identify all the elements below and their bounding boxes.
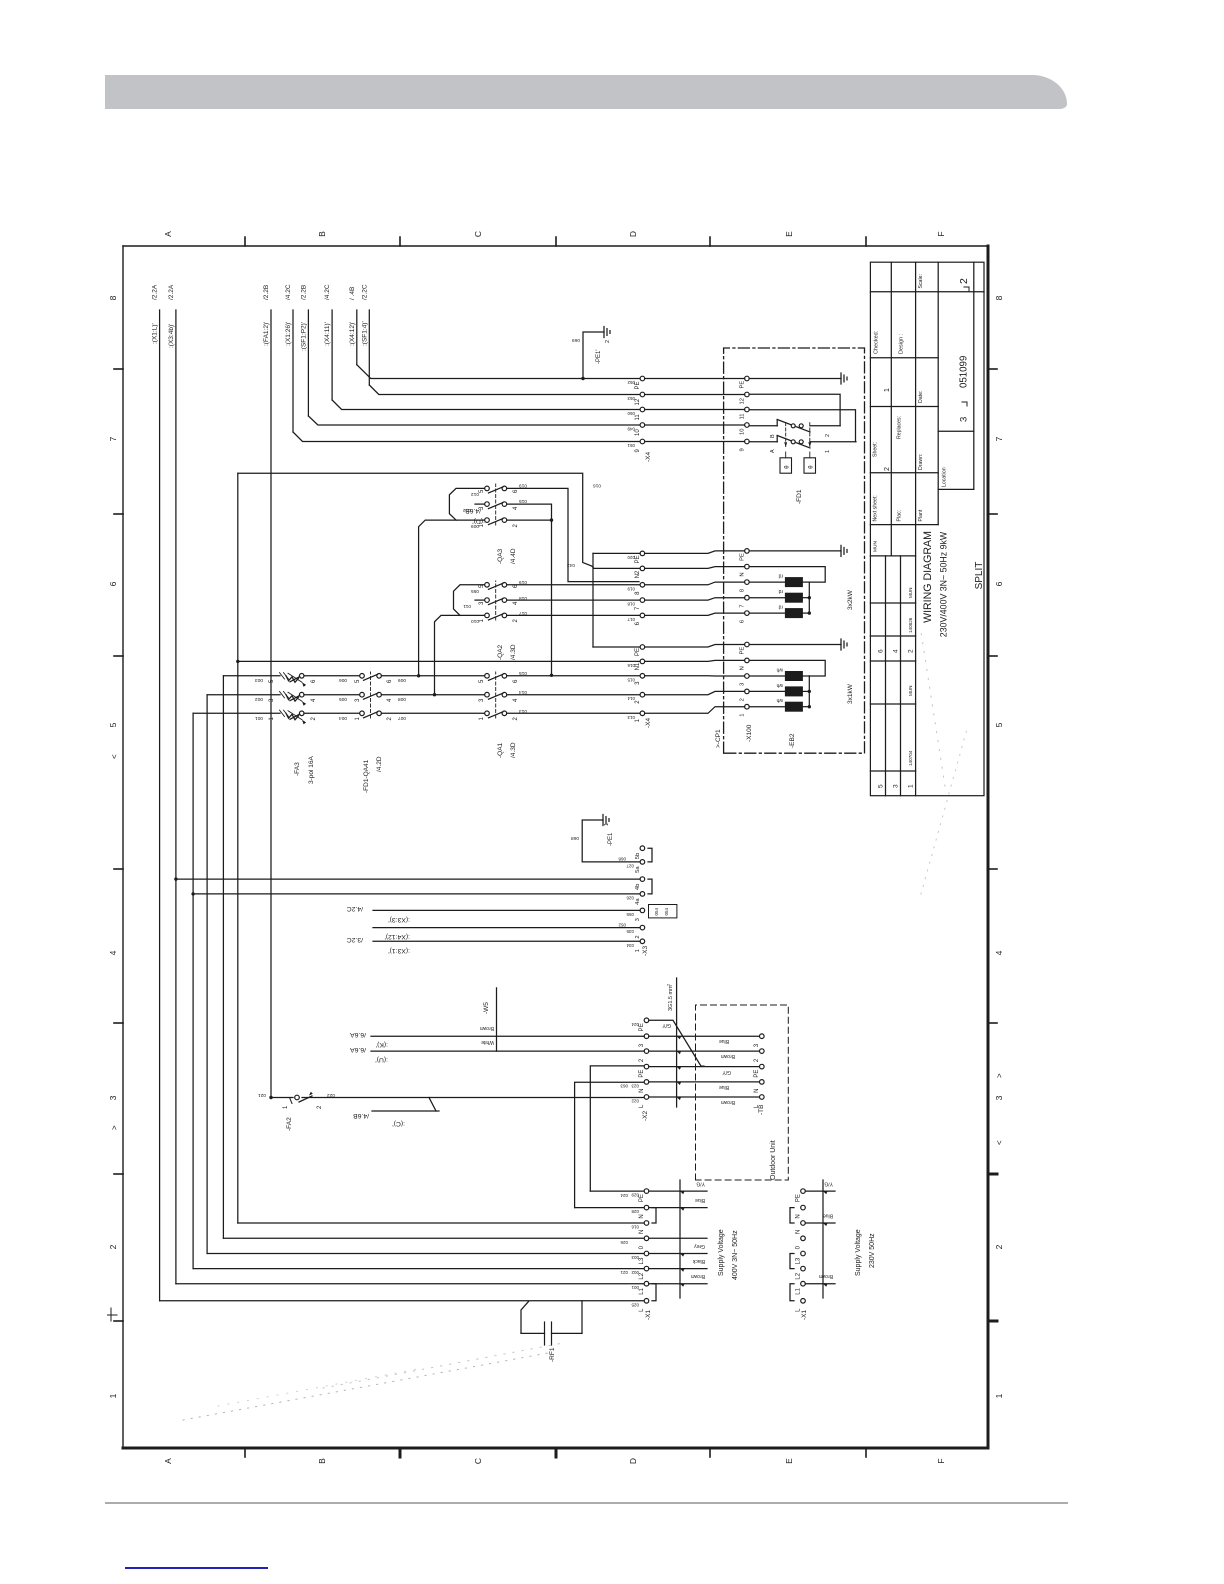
svg-text:1: 1 — [108, 1393, 118, 1398]
terminal TB:PE — [760, 1064, 765, 1069]
svg-text:Brown: Brown — [819, 1273, 833, 1279]
terminal X4:PE groupB — [640, 551, 645, 556]
svg-text:6: 6 — [311, 679, 317, 683]
svg-text:-QA2: -QA2 — [497, 644, 504, 660]
svg-text:028: 028 — [631, 1209, 639, 1214]
svg-text:Y/G: Y/G — [824, 1181, 833, 1187]
svg-text:-W5: -W5 — [483, 1002, 490, 1014]
terminal X2:N — [644, 1080, 649, 1085]
svg-text:2: 2 — [754, 1058, 760, 1062]
svg-text:A: A — [770, 449, 776, 453]
svg-text:N: N — [740, 572, 746, 576]
svg-text:2: 2 — [825, 434, 831, 437]
wire X1:N vertical — [238, 1222, 644, 1224]
svg-text:C: C — [473, 231, 483, 237]
terminal X1b:N — [801, 1205, 806, 1210]
svg-text:052: 052 — [618, 923, 626, 928]
svg-text:015: 015 — [519, 670, 527, 676]
svg-text:025: 025 — [631, 1302, 639, 1307]
wire supply Black — [649, 1268, 707, 1270]
svg-text:1: 1 — [908, 784, 915, 788]
svg-text:wh: wh — [776, 682, 783, 688]
terminal X1b:L3 — [801, 1251, 806, 1256]
svg-text:Blue: Blue — [719, 1084, 729, 1090]
svg-text:021: 021 — [620, 1270, 628, 1275]
svg-text:-X1: -X1 — [645, 1310, 652, 1321]
svg-text:140826: 140826 — [908, 617, 913, 633]
wire X3:4a riser — [191, 892, 194, 895]
svg-text:L2: L2 — [796, 1272, 802, 1279]
svg-text:/2.2B: /2.2B — [300, 285, 307, 300]
jumper bracket X3:4a-4b — [648, 879, 652, 894]
svg-text::(X4:11)': :(X4:11)' — [324, 322, 331, 346]
svg-text:3: 3 — [479, 506, 485, 510]
svg-text:3: 3 — [479, 601, 485, 605]
wire supply stub 0 — [649, 1237, 707, 1239]
svg-text:N: N — [639, 1214, 645, 1218]
svg-text:4: 4 — [387, 698, 393, 702]
frame column ticks bottom edge — [988, 368, 997, 370]
svg-text:-FA3: -FA3 — [294, 762, 301, 776]
svg-text:2: 2 — [387, 717, 393, 721]
svg-text:012: 012 — [471, 491, 479, 497]
terminal X100:8 — [745, 580, 750, 585]
wire N1 drop from neutral bus — [236, 660, 239, 663]
svg-text:L3: L3 — [796, 1257, 802, 1264]
svg-text:2: 2 — [666, 983, 671, 986]
terminal X3:5b — [640, 846, 645, 851]
terminal X3:4a — [640, 892, 645, 897]
svg-text:022: 022 — [327, 1092, 335, 1098]
svg-text:4: 4 — [108, 950, 118, 955]
svg-text:rd: rd — [778, 604, 783, 610]
svg-text:/4.4D: /4.4D — [510, 548, 517, 564]
svg-text:/4.2C: /4.2C — [347, 905, 363, 912]
svg-text:017: 017 — [519, 610, 527, 616]
svg-text:013: 013 — [519, 708, 527, 714]
svg-text:3: 3 — [108, 1095, 118, 1100]
title block outline — [870, 262, 984, 796]
svg-text:MUN: MUN — [908, 588, 913, 598]
svg-text:026: 026 — [620, 1240, 628, 1245]
terminal X1b:L2 — [801, 1266, 806, 1271]
wire PE link groupA-groupB — [592, 553, 594, 647]
contactor QA1 /4.3D — [485, 711, 490, 716]
svg-text:Brown: Brown — [480, 1025, 494, 1031]
terminal TB:L — [760, 1095, 765, 1100]
terminal X100:2 — [745, 689, 750, 694]
svg-text:069: 069 — [572, 337, 580, 343]
svg-text:Supply Voltage: Supply Voltage — [855, 1229, 862, 1276]
svg-text:052: 052 — [627, 380, 635, 385]
svg-text:068: 068 — [571, 835, 579, 841]
svg-text:4: 4 — [994, 950, 1004, 955]
wire X3:1 riser ref :(X3:1) /3.2C — [373, 940, 640, 942]
svg-text:4: 4 — [893, 649, 900, 653]
svg-text:3: 3 — [479, 698, 485, 702]
svg-text:PE: PE — [740, 553, 746, 561]
svg-text:Brown: Brown — [721, 1053, 735, 1059]
svg-text:wh: wh — [776, 697, 783, 703]
svg-text:4: 4 — [513, 601, 519, 605]
wires X4 groupC to X100 — [645, 441, 745, 443]
svg-text:A: A — [163, 231, 173, 237]
svg-text:L1: L1 — [796, 1287, 802, 1294]
terminal X4:N2 groupB — [640, 566, 645, 571]
svg-text:068: 068 — [618, 857, 626, 862]
wire supply Y/G — [649, 1190, 707, 1192]
terminal X4:7 groupB — [640, 598, 645, 603]
FD1 trip linkage upper — [785, 422, 787, 447]
svg-text:4: 4 — [513, 698, 519, 702]
svg-text:002: 002 — [631, 1270, 639, 1275]
terminal X4:N1 — [640, 659, 645, 664]
svg-text:N2: N2 — [635, 570, 641, 578]
svg-text:001: 001 — [631, 1285, 639, 1290]
svg-text:PE: PE — [754, 1070, 760, 1078]
svg-text:012: 012 — [463, 507, 471, 513]
svg-text:1: 1 — [355, 717, 361, 721]
svg-text:D: D — [628, 1458, 638, 1464]
terminal X2:3 — [644, 1034, 649, 1039]
junction bar 1kW — [808, 676, 810, 707]
svg-text:rd: rd — [778, 573, 783, 579]
FD1 theta element 2 — [804, 458, 816, 473]
svg-text:2: 2 — [635, 935, 641, 938]
wire bus net X1:L — [159, 310, 161, 1301]
svg-text:-X100: -X100 — [746, 724, 753, 742]
terminal X3:1 — [640, 939, 645, 944]
terminal X100:PE — [745, 549, 750, 554]
wire drop to X4:10 — [308, 416, 640, 425]
svg-text:3x2kW: 3x2kW — [847, 589, 854, 610]
svg-text:3: 3 — [893, 784, 900, 788]
svg-text:Location: Location — [942, 467, 948, 487]
footer blue underline — [125, 1567, 268, 1569]
svg-text:9: 9 — [740, 448, 746, 451]
svg-text:2: 2 — [884, 467, 891, 471]
svg-text:-X4: -X4 — [645, 718, 652, 729]
terminal X1:L2 — [644, 1266, 649, 1271]
svg-text:<: < — [995, 1140, 1004, 1145]
terminal X1:PE — [644, 1189, 649, 1194]
terminal X4:12 groupC — [640, 392, 645, 397]
svg-text:140704: 140704 — [908, 750, 913, 766]
wire bus phase 1 — [192, 713, 194, 1268]
svg-text:1: 1 — [635, 949, 641, 952]
wires X4 groupB to X100 2kW — [645, 613, 745, 615]
terminal X2:2 — [644, 1049, 649, 1054]
terminal TB:N — [760, 1080, 765, 1085]
svg-text:Brown: Brown — [721, 1099, 735, 1105]
svg-text:Brown: Brown — [691, 1273, 705, 1279]
svg-text:2: 2 — [513, 524, 519, 528]
jumper brackets X1 230V — [790, 1284, 794, 1301]
svg-text:010: 010 — [471, 618, 479, 624]
svg-text:6: 6 — [513, 489, 519, 493]
svg-text:1: 1 — [740, 713, 746, 716]
svg-text:3: 3 — [355, 698, 361, 702]
terminal X1:L — [644, 1299, 649, 1304]
svg-text:020: 020 — [627, 555, 635, 560]
frame row ticks right edge — [244, 237, 246, 246]
terminal X100:N — [745, 564, 750, 569]
wire X1:L2 vertical — [193, 1268, 644, 1270]
terminal X100:N — [745, 658, 750, 663]
wire X2:L to TB — [649, 1096, 760, 1098]
svg-text:>-CP1: >-CP1 — [715, 729, 722, 748]
terminal X2:PE — [644, 1064, 649, 1069]
jumper bracket X3:5a-5b — [648, 848, 652, 862]
wire neutral drop to X4:N2 — [238, 473, 640, 568]
svg-text:Y/G: Y/G — [696, 1181, 705, 1187]
svg-text:>: > — [995, 1073, 1004, 1078]
svg-text:Grey: Grey — [694, 1243, 705, 1249]
svg-text:B: B — [317, 1458, 327, 1464]
wire X2:PE2 diagonal — [649, 1020, 704, 1066]
svg-text:005: 005 — [339, 696, 347, 702]
terminal TB:3 — [760, 1034, 765, 1039]
footer gray line — [105, 1502, 1068, 1504]
terminal X1b:0 — [801, 1236, 806, 1241]
svg-text:3: 3 — [635, 918, 641, 921]
terminal X3:4b — [640, 877, 645, 882]
ref stub :(C) /4.6B on FA2 wire — [372, 1110, 439, 1112]
terminal X1:N — [644, 1221, 649, 1226]
svg-text:5b: 5b — [635, 853, 641, 859]
FD1 output loop 12 to 10 — [749, 394, 840, 426]
svg-text:-QA3: -QA3 — [497, 548, 504, 564]
wire bus net X1:26 — [292, 310, 294, 432]
terminal box 054 at X3:3 — [649, 905, 677, 918]
svg-text:016: 016 — [631, 1225, 639, 1230]
svg-text:A: A — [163, 1458, 173, 1464]
svg-text:016: 016 — [593, 483, 601, 489]
svg-text:/2.2A: /2.2A — [152, 284, 159, 300]
stub QA3 pole3 — [475, 503, 485, 505]
wire X3:4b riser — [174, 877, 177, 880]
svg-text:N: N — [740, 666, 746, 670]
svg-text:G/Y: G/Y — [722, 1069, 731, 1075]
svg-text:014: 014 — [627, 696, 635, 701]
wire bus net FA1:2 — [270, 310, 272, 1098]
linkage FD1-QA41 — [370, 672, 372, 718]
svg-text:021: 021 — [258, 1092, 266, 1098]
svg-text:6: 6 — [387, 679, 393, 683]
svg-text::(SF1:P2)': :(SF1:P2)' — [300, 322, 307, 351]
wire bus net X3:4b — [175, 310, 177, 1284]
terminal X4:6 groupB — [640, 613, 645, 618]
ground FD1 PE — [749, 378, 841, 380]
ground PE1' near X4 group C — [581, 377, 584, 380]
wire link QA3 pole1 to pole5 — [449, 488, 484, 520]
svg-text:015: 015 — [627, 677, 635, 682]
FD1 contact A on wire 9 — [749, 441, 777, 443]
terminal X1b:PE — [801, 1189, 806, 1194]
svg-text:PE: PE — [740, 381, 746, 389]
svg-text:/4.2D: /4.2D — [376, 756, 383, 772]
svg-text:-EB2: -EB2 — [789, 733, 796, 748]
svg-text:G/Y: G/Y — [662, 1022, 671, 1028]
terminal X4:1 — [640, 711, 645, 716]
svg-text:5a: 5a — [635, 866, 641, 873]
svg-text:3-pol 16A: 3-pol 16A — [308, 756, 315, 784]
svg-text:8: 8 — [994, 295, 1004, 300]
terminal X1:N — [644, 1205, 649, 1210]
wire X3:3 riser ref :(X3:3) /4.2C — [373, 909, 640, 911]
svg-text:3: 3 — [754, 1043, 760, 1047]
svg-text:/4.2C: /4.2C — [285, 284, 292, 300]
FD1 output loop 11 to 9 — [749, 410, 855, 442]
heater elements 3x2kW — [749, 612, 785, 614]
wire X3:2 riser ref :(X4:12) — [373, 927, 640, 929]
svg-text:F: F — [936, 1458, 946, 1463]
svg-text:013: 013 — [627, 715, 635, 720]
svg-text:-X4: -X4 — [645, 452, 652, 463]
ground for 2kW group — [749, 550, 841, 552]
svg-text:055: 055 — [626, 912, 634, 917]
wire supply230 Blue — [805, 1222, 835, 1224]
svg-text:035: 035 — [626, 929, 634, 934]
svg-text:054: 054 — [654, 907, 659, 915]
svg-text:5: 5 — [108, 722, 118, 727]
svg-text:1: 1 — [479, 717, 485, 721]
svg-text:049: 049 — [627, 427, 635, 432]
svg-text:Design :: Design : — [899, 333, 905, 354]
svg-text:1: 1 — [269, 717, 275, 721]
capacitor RF1 — [521, 1332, 545, 1334]
svg-text:Plant: Plant — [918, 509, 924, 521]
svg-text:051099: 051099 — [959, 356, 970, 388]
wire supply Blue — [649, 1207, 707, 1209]
svg-text:D: D — [628, 231, 638, 237]
terminal X3:3 — [640, 908, 645, 913]
svg-text:/3.2C: /3.2C — [347, 936, 363, 943]
terminal X100:11 — [745, 407, 750, 412]
svg-text:024: 024 — [620, 1193, 628, 1198]
wire drop to X4:9 — [293, 432, 640, 442]
svg-text:2: 2 — [513, 717, 519, 721]
svg-text::(X4:12)': :(X4:12)' — [385, 933, 410, 940]
cable to outdoor unit 3G1.5 — [676, 978, 678, 1107]
junction bar 2kW — [808, 582, 810, 613]
svg-text::(X3:4b)': :(X3:4b)' — [168, 324, 175, 348]
svg-text:007: 007 — [398, 715, 406, 721]
title block horizontal dividers — [890, 262, 892, 556]
svg-text:Blue: Blue — [695, 1197, 705, 1203]
svg-text::(X1:L)': :(X1:L)' — [152, 323, 159, 344]
terminal X4:PE groupC — [640, 376, 645, 381]
svg-text:10: 10 — [740, 429, 746, 435]
svg-text:12: 12 — [740, 398, 746, 404]
svg-text:018: 018 — [627, 602, 635, 607]
svg-text:5: 5 — [878, 784, 885, 788]
svg-text:5: 5 — [269, 679, 275, 683]
wire X1:L3 vertical — [207, 1253, 644, 1255]
svg-text:SPLIT: SPLIT — [974, 562, 985, 590]
svg-text:rd: rd — [778, 588, 783, 594]
svg-text:N: N — [796, 1230, 802, 1234]
svg-text:Black: Black — [692, 1258, 705, 1264]
wire supply230 Brown — [805, 1283, 835, 1285]
svg-text:5: 5 — [479, 679, 485, 683]
title block vertical dividers — [870, 555, 915, 557]
svg-text:L: L — [796, 1308, 802, 1312]
svg-text:/2.2C: /2.2C — [361, 284, 368, 300]
svg-text::(SF1:4)': :(SF1:4)' — [361, 321, 368, 346]
svg-text:L: L — [639, 1308, 645, 1312]
svg-text::(FA1:2)': :(FA1:2)' — [263, 322, 270, 346]
svg-text:006: 006 — [339, 677, 347, 683]
svg-text:Plac:: Plac: — [897, 510, 903, 522]
svg-text:7: 7 — [740, 604, 746, 607]
svg-text:054: 054 — [664, 907, 669, 915]
svg-text:004: 004 — [339, 715, 347, 721]
svg-text:6: 6 — [513, 679, 519, 683]
svg-text:/6.6A: /6.6A — [350, 1031, 366, 1038]
watermark dots in empty title cell — [921, 729, 967, 894]
terminal X3:2 — [640, 925, 645, 930]
contactor QA3 /4.4D — [485, 518, 490, 523]
svg-text:4a: 4a — [635, 898, 641, 905]
outdoor unit TB dashed box — [696, 1005, 789, 1180]
svg-text:015: 015 — [519, 498, 527, 504]
svg-text:/6.6A: /6.6A — [350, 1046, 366, 1053]
terminal X1:0 — [644, 1236, 649, 1241]
svg-text:Scale:: Scale: — [918, 274, 924, 288]
svg-text:PE: PE — [740, 647, 746, 655]
header gray bar — [105, 75, 1067, 109]
svg-text:E: E — [784, 1458, 794, 1464]
wire bus net X4:12 — [356, 310, 358, 365]
svg-text:042: 042 — [567, 562, 575, 568]
svg-text:Checked:: Checked: — [874, 330, 880, 354]
wire link QA2 pole1 to pole5 — [454, 585, 485, 616]
terminal X3:5a — [640, 860, 645, 865]
svg-text:-X1: -X1 — [801, 1310, 808, 1321]
svg-text:/2.2A: /2.2A — [168, 284, 175, 300]
terminal X2:L — [644, 1095, 649, 1100]
svg-text:019: 019 — [519, 483, 527, 489]
svg-text:3x1kW: 3x1kW — [847, 683, 854, 704]
svg-text:Replaces:: Replaces: — [897, 416, 903, 439]
svg-text::(K)': :(K)' — [376, 1041, 388, 1048]
svg-text:019: 019 — [627, 586, 635, 591]
wire X1:PE vertical — [590, 1190, 644, 1192]
svg-text:7: 7 — [994, 436, 1004, 441]
contactor FD1-QA41 /4.2D — [360, 711, 365, 716]
svg-text:011: 011 — [463, 603, 471, 609]
svg-text::(U)': :(U)' — [375, 1056, 388, 1063]
wire N jumper X1 to X2 — [575, 1082, 644, 1207]
svg-text:PE: PE — [635, 648, 641, 656]
svg-text:-X3: -X3 — [642, 946, 649, 957]
svg-text:6: 6 — [878, 649, 885, 653]
wire feeder QA2 from QA41 — [433, 693, 436, 696]
svg-text:4: 4 — [311, 698, 317, 702]
svg-text:/4.3D: /4.3D — [510, 742, 517, 758]
svg-text:3: 3 — [740, 683, 746, 686]
terminal X4:9 groupC — [640, 439, 645, 444]
svg-text:Supply Voltage: Supply Voltage — [718, 1229, 725, 1276]
svg-text:/ .4B: / .4B — [349, 287, 356, 300]
svg-text:017: 017 — [627, 617, 635, 622]
svg-text:N: N — [796, 1214, 802, 1218]
svg-text:wh: wh — [776, 667, 783, 673]
svg-text:PE: PE — [639, 1070, 645, 1078]
svg-text:2: 2 — [513, 619, 519, 623]
wire X1:N2 vertical — [575, 1207, 644, 1209]
